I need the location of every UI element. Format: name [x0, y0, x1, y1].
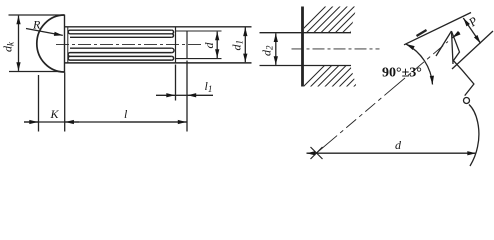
groove crest extension line (long) — [404, 13, 471, 45]
head-shank junction line — [67, 27, 69, 63]
svg-text:K: K — [50, 107, 60, 121]
P extension line B — [452, 31, 493, 69]
svg-text:l1: l1 — [205, 79, 213, 94]
wall left edge thick line — [301, 7, 304, 87]
angular dimension arc 90deg — [406, 44, 433, 85]
round head dome arc — [37, 15, 65, 72]
K and l dimension line — [24, 121, 187, 123]
pin bottom edge (d1 crest) extension — [65, 62, 252, 64]
dimension line d (detail) with arrows — [307, 152, 477, 154]
svg-text:dk: dk — [1, 41, 16, 52]
svg-text:P: P — [465, 13, 481, 30]
K right / head face extension line — [64, 72, 66, 131]
dimension d2 bottom extension line — [260, 65, 303, 67]
l right arrow — [120, 121, 187, 123]
dimension l1 left arrow segment — [156, 94, 175, 96]
l1 left extension line — [175, 65, 177, 101]
knurl groove lines — [68, 30, 174, 60]
plain end bottom edge / d extension — [176, 58, 222, 60]
svg-text:90°±3°: 90°±3° — [382, 66, 422, 81]
groove end loop — [464, 98, 470, 104]
hole centerline — [292, 48, 380, 50]
dimension line d2 with arrows — [275, 33, 277, 65]
l1 right extension line — [186, 61, 188, 132]
shared arrow at head face pointing left — [65, 121, 79, 123]
groove vertical flank — [452, 31, 454, 64]
dimension l1 middle segment — [176, 94, 188, 96]
dimension d2 top extension line — [260, 32, 303, 34]
svg-text:d: d — [202, 42, 216, 49]
groove end curls right — [172, 30, 174, 34]
groove end curls left — [68, 30, 70, 34]
dimension line d_k with arrows — [18, 16, 20, 71]
leader arrowhead at groove vertex — [452, 33, 459, 38]
pin end face — [186, 31, 188, 59]
hole top edge — [303, 32, 352, 34]
hatching upper wall — [292, 0, 397, 98]
svg-text:l: l — [124, 107, 128, 121]
K left outside arrow — [24, 121, 38, 123]
serrated groove profile zigzag — [452, 32, 474, 96]
dimension d_k top extension line — [9, 14, 65, 16]
center mark cross — [311, 147, 323, 159]
leader line R with arrow — [26, 29, 63, 36]
knurl-plain junction line — [175, 27, 177, 63]
hole bottom edge — [303, 65, 352, 67]
dimension d_k bottom extension line — [9, 71, 61, 73]
dimension line d with arrows — [216, 32, 218, 58]
pin surface arc — [469, 105, 479, 167]
head face line — [64, 15, 66, 73]
P dimension line with arrows — [463, 18, 480, 43]
pin top edge (d1 crest) extension — [65, 26, 252, 28]
detail centerline 45deg — [317, 42, 449, 154]
K left extension line — [38, 75, 40, 132]
pin centerline — [56, 44, 201, 46]
svg-text:d2: d2 — [260, 45, 275, 56]
groove steep flank — [436, 31, 452, 56]
dimension l1 right arrow segment — [188, 94, 214, 96]
plain end top edge / d extension — [176, 30, 222, 32]
bold tick mark on flank — [417, 30, 427, 36]
dimension line d1 with arrows — [244, 27, 246, 62]
svg-text:d1: d1 — [230, 40, 245, 51]
svg-text:d: d — [395, 138, 402, 152]
